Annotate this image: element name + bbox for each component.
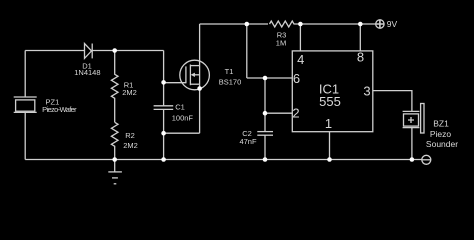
wire pin4 [299, 24, 301, 51]
svg-text:3: 3 [363, 83, 370, 98]
wire pin8 [359, 24, 361, 51]
power +9V symbol [376, 20, 384, 28]
node gate [161, 80, 166, 85]
wire node down to gate node [163, 51, 165, 83]
mosfet bulk arrowhead [191, 73, 195, 77]
diode D1 [85, 44, 93, 59]
node pin6 [263, 76, 268, 81]
wire pin1 [329, 132, 331, 160]
node pin1 rail [327, 157, 332, 162]
wire source node to ground rail [163, 133, 165, 159]
ground [108, 160, 122, 184]
svg-text:47nF: 47nF [239, 137, 257, 146]
wire top rail to R3 [200, 23, 268, 25]
wire drain sense down [246, 24, 248, 78]
wire bottom ground rail [25, 159, 422, 161]
buzzer BZ1 [403, 104, 424, 134]
wire to pin6 [247, 77, 292, 79]
resistor R2 [111, 122, 118, 159]
svg-text:555: 555 [319, 94, 341, 109]
svg-text:4: 4 [297, 52, 304, 67]
svg-text:C1: C1 [175, 103, 185, 112]
transistor Q T1 BS170 [180, 60, 210, 90]
power -9V terminal [422, 155, 431, 164]
wire R3 to 9V [300, 23, 375, 25]
node pin8 [358, 22, 363, 27]
node mosfet source [197, 86, 202, 91]
wire source node to mosfet source [164, 132, 200, 134]
wire gate lead [164, 82, 186, 84]
wire pin6 node down to pin2 node [264, 78, 266, 113]
wire pin3 to sounder [373, 91, 412, 112]
node pin2 [263, 111, 268, 116]
svg-text:Piezo: Piezo [430, 129, 452, 139]
resistor R3 [270, 21, 301, 27]
svg-text:9V: 9V [387, 19, 398, 29]
wire C1 bottom to source node [163, 109, 165, 133]
node C2 rail [263, 157, 268, 162]
svg-text:R2: R2 [125, 131, 135, 140]
wire top-left rail [25, 50, 84, 52]
node D1-R1 [112, 48, 117, 53]
wire C2 bottom to rail [264, 135, 266, 159]
svg-text:8: 8 [357, 49, 364, 64]
svg-text:100nF: 100nF [172, 113, 194, 122]
svg-text:Piezo-Wafer: Piezo-Wafer [42, 105, 77, 114]
wire mosfet source down [199, 84, 201, 133]
wire D1 cathode to node [92, 50, 163, 52]
piezo wafer PZ1 [14, 97, 37, 112]
node rail drain [245, 22, 250, 27]
svg-text:1: 1 [325, 116, 332, 131]
wire gate node down to C1 [163, 82, 165, 105]
node BZ1 rail [410, 157, 415, 162]
node pin4 [298, 22, 303, 27]
svg-text:2: 2 [292, 105, 299, 120]
svg-text:1M: 1M [276, 38, 286, 47]
node C1 rail [161, 157, 166, 162]
svg-text:T1: T1 [225, 67, 234, 76]
svg-text:Sounder: Sounder [426, 139, 458, 149]
wire to pin2 [265, 112, 292, 114]
wire sounder bottom to rail [411, 128, 413, 160]
node C1 bottom [161, 131, 166, 136]
svg-text:2M2: 2M2 [123, 141, 138, 150]
svg-text:6: 6 [293, 71, 300, 86]
wire PZ1 bottom lead [24, 112, 26, 159]
IC labels [292, 49, 370, 131]
svg-text:BS170: BS170 [219, 78, 242, 87]
svg-text:BZ1: BZ1 [433, 118, 449, 128]
wire PZ1 top lead [24, 51, 26, 98]
node R2 rail [112, 157, 117, 162]
wire mosfet drain up [199, 24, 201, 66]
svg-text:1N4148: 1N4148 [74, 68, 100, 77]
capacitor C2 [257, 132, 273, 136]
op-amp IC1 555 box [292, 51, 373, 132]
svg-text:2M2: 2M2 [122, 88, 137, 97]
wire pin2 node down to C2 [264, 113, 266, 131]
capacitor C1 [154, 106, 174, 110]
resistor R1 [111, 51, 118, 123]
